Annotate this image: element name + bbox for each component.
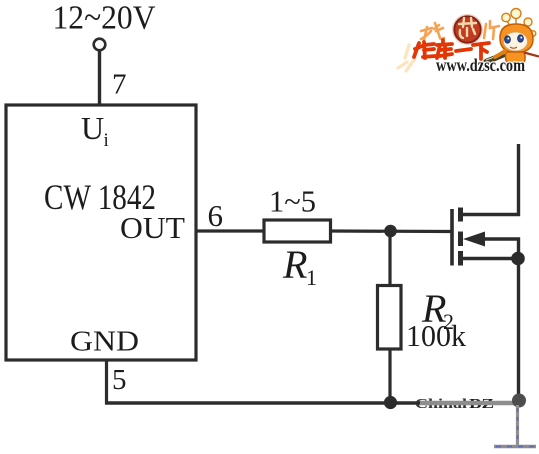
logo character zhao (find) bbox=[421, 23, 444, 40]
IC U1 CW1842 box bbox=[6, 105, 196, 360]
mascot face bbox=[504, 32, 528, 51]
bottom rail wire grey segment bbox=[420, 401, 524, 406]
svg-text:OUT: OUT bbox=[120, 210, 185, 245]
ku bbox=[441, 40, 445, 44]
svg-text:i: i bbox=[104, 130, 109, 151]
svg-text:1: 1 bbox=[306, 265, 317, 290]
svg-text:12~20V: 12~20V bbox=[53, 0, 156, 37]
MOSFET Q1 gate bar bbox=[450, 209, 454, 266]
wire R2 to bottom rail bbox=[388, 349, 391, 403]
watermark blue marks on ground bar bbox=[496, 446, 534, 448]
svg-text:7: 7 bbox=[112, 69, 127, 101]
logo pen of mascot bbox=[481, 50, 510, 65]
MOSFET Q1 source channel stub bbox=[458, 251, 463, 266]
svg-text:100k: 100k bbox=[406, 318, 466, 353]
terminal circle (supply input) bbox=[94, 39, 106, 51]
svg-text:www.dzsc.com: www.dzsc.com bbox=[436, 55, 525, 75]
mascot eyes bbox=[505, 36, 511, 43]
svg-text:GND: GND bbox=[70, 326, 139, 358]
mascot mouth bbox=[510, 47, 517, 48]
junction node source/body bbox=[511, 252, 525, 266]
logo magnifier circle with xin character bbox=[454, 16, 481, 43]
MOSFET Q1 body channel stub bbox=[458, 232, 463, 247]
wire junction down to R2 bbox=[388, 231, 391, 287]
watermark blue marks on ground wire bbox=[517, 408, 519, 442]
mascot antenna balls bbox=[502, 9, 536, 37]
junction node bottom right bbox=[512, 394, 526, 408]
pin 5 wire bbox=[105, 360, 108, 405]
wire pin 6 to R1 bbox=[196, 229, 265, 232]
logo character pian (chip) bbox=[484, 21, 499, 39]
svg-text:R: R bbox=[282, 242, 307, 287]
yi bbox=[456, 49, 471, 51]
Q1 body arrow (points to channel) bbox=[463, 232, 485, 247]
junction node R1/R2/gate bbox=[384, 225, 397, 238]
mascot body bbox=[506, 52, 526, 65]
wire source down to bottom rail bbox=[517, 259, 520, 399]
resistor R1 body bbox=[264, 220, 331, 242]
Q1 body wire bbox=[482, 239, 519, 258]
resistor R2 body bbox=[378, 286, 402, 350]
logo text weiku-yixia (orange red) bbox=[414, 40, 489, 59]
Q1 drain wire up to supply bbox=[461, 144, 519, 215]
wire pin 7 vertical bbox=[98, 51, 101, 106]
wire R1 to MOSFET gate bbox=[330, 229, 451, 233]
mascot head bbox=[500, 24, 533, 53]
wire junction to ground bbox=[516, 405, 519, 445]
MOSFET Q1 drain channel stub bbox=[458, 208, 463, 222]
xia bbox=[473, 43, 489, 45]
Q1 source wire bbox=[461, 257, 519, 260]
logo pale shadow swoosh bbox=[398, 45, 414, 71]
ground symbol bar bbox=[494, 445, 536, 448]
mascot leg bbox=[513, 65, 520, 71]
mascot right stick bbox=[524, 53, 539, 57]
wei bbox=[414, 43, 419, 57]
svg-text:5: 5 bbox=[112, 364, 127, 396]
svg-text:6: 6 bbox=[208, 198, 224, 233]
svg-text:1~5: 1~5 bbox=[269, 184, 316, 219]
bottom rail wire dark segment bbox=[105, 401, 425, 404]
mascot arm left bbox=[495, 51, 505, 57]
svg-text:U: U bbox=[81, 110, 104, 146]
junction node bottom centre bbox=[384, 396, 397, 409]
